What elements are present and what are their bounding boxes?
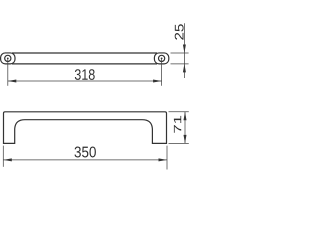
arrowhead 25 top (pointing down) xyxy=(183,45,186,54)
arrowhead 25 bottom (pointing up) xyxy=(183,64,186,73)
right screw hole circle xyxy=(159,55,165,61)
dimension text 318 xyxy=(75,69,95,80)
arrowhead right of 350 xyxy=(159,158,168,161)
extension line right for 350 dim xyxy=(166,146,168,170)
arrowhead right of 318 xyxy=(153,80,162,83)
dimension text 71 (rotated) xyxy=(174,116,181,133)
left hole center dot xyxy=(7,58,9,60)
extension line bottom for 71 dim xyxy=(169,142,189,144)
extension line from left hole center xyxy=(7,58,9,85)
dimension line 25 (vertical) xyxy=(183,23,185,78)
extension line bottom for 25 dim xyxy=(171,63,189,65)
left screw hole circle xyxy=(5,55,11,61)
handle front-view outline xyxy=(4,112,167,144)
bar top edge (top view) xyxy=(12,52,157,54)
dimension line 350 xyxy=(3,159,167,161)
arrowhead 71 bottom (pointing down) xyxy=(184,135,187,144)
dimension text 25 (rotated) xyxy=(175,24,184,39)
left end rosette xyxy=(1,53,15,64)
extension line from right hole center xyxy=(161,58,163,85)
dimension text 350 xyxy=(75,147,96,158)
extension line left for 350 dim xyxy=(2,146,4,167)
dimension line 71 (vertical) xyxy=(184,112,186,144)
extension line top for 25 dim xyxy=(171,52,189,54)
right hole center dot xyxy=(161,58,163,60)
bar bottom edge (top view) xyxy=(12,63,157,65)
right end rosette xyxy=(154,53,168,64)
extension line top for 71 dim xyxy=(169,111,189,113)
arrowhead left of 350 xyxy=(3,158,12,161)
arrowhead left of 318 xyxy=(8,80,16,83)
dimension line 318 xyxy=(8,80,162,82)
arrowhead 71 top (pointing up) xyxy=(184,112,187,121)
